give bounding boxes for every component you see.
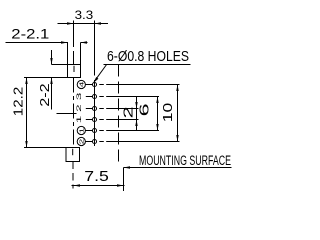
svg-text:2-2: 2-2 bbox=[37, 83, 52, 107]
svg-text:2: 2 bbox=[75, 104, 82, 112]
svg-text:2-2.1: 2-2.1 bbox=[11, 27, 49, 42]
svg-text:1: 1 bbox=[75, 115, 82, 123]
svg-text:2: 2 bbox=[121, 106, 136, 118]
svg-text:10: 10 bbox=[160, 103, 175, 123]
svg-text:6-Ø0.8 HOLES: 6-Ø0.8 HOLES bbox=[107, 49, 189, 65]
svg-text:2: 2 bbox=[78, 139, 85, 145]
svg-text:MOUNTING SURFACE: MOUNTING SURFACE bbox=[139, 153, 231, 168]
svg-text:3.3: 3.3 bbox=[75, 8, 94, 22]
svg-text:4: 4 bbox=[78, 82, 85, 88]
svg-text:3: 3 bbox=[75, 92, 82, 100]
svg-text:7.5: 7.5 bbox=[84, 169, 109, 185]
svg-text:12.2: 12.2 bbox=[11, 87, 26, 117]
svg-text:6: 6 bbox=[137, 103, 152, 116]
svg-text:1: 1 bbox=[78, 128, 85, 134]
